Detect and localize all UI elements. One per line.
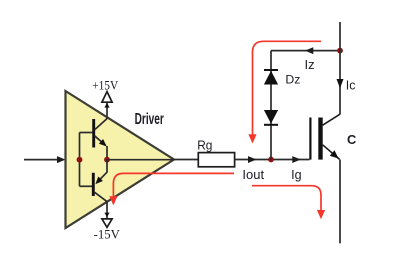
transistor Q1 collector (95, 119, 107, 130)
transistor Q2 emitter wire (97, 160, 107, 183)
svg-text:-15V: -15V (94, 226, 121, 241)
arrowhead Iz (305, 47, 314, 54)
wire base of Q2 (80, 185, 93, 187)
svg-text:C: C (347, 132, 356, 147)
wire base of Q1 (80, 132, 93, 134)
svg-text:+15V: +15V (92, 77, 119, 92)
red arrow Iout loop (109, 196, 117, 205)
wire top from rail to zeners (271, 50, 340, 52)
terminal arrow +15V (102, 92, 112, 103)
svg-text:Iz: Iz (305, 57, 315, 72)
svg-text:Dz: Dz (285, 72, 300, 86)
wire emitter node to output tip (107, 159, 174, 161)
node emitter junction dot (104, 157, 110, 163)
arrowhead Iout (248, 156, 257, 163)
transistor Q1 emitter arrow (99, 139, 107, 146)
input arrowhead into driver (57, 156, 66, 163)
transistor Q1 emitter (95, 136, 106, 146)
transistor Q2 PNP base bar (92, 173, 95, 196)
resistor Rg (198, 153, 234, 167)
red current path Iout loop (113, 173, 234, 197)
supply stub +15V (106, 102, 108, 119)
svg-text:Iout: Iout (242, 167, 264, 182)
wire Q1 emitter to node (106, 146, 108, 160)
node base junction dot (77, 157, 83, 163)
diode Dz2 triangle (264, 110, 278, 124)
wire tip to Rg (174, 159, 198, 161)
supply stub -15V (106, 201, 108, 219)
transistor IGBT gate bar (309, 118, 311, 160)
red current path Ig loop (252, 186, 321, 211)
transistor IGBT emitter arrow (330, 150, 339, 158)
wire zener chain vertical (270, 51, 272, 160)
diode Dz1 cathode bar (264, 69, 278, 71)
wire collector rail (339, 22, 341, 114)
red current path Iz loop (253, 41, 322, 135)
small arrow on -15V stub (104, 213, 109, 218)
red arrow Iz loop (248, 134, 256, 143)
node gate junction dot (268, 157, 274, 163)
op-amp driver triangle body (66, 91, 175, 228)
arrowhead Ig (292, 156, 301, 163)
svg-text:Rg: Rg (197, 139, 212, 153)
transistor IGBT collector (323, 114, 340, 125)
diode Dz1 triangle (264, 71, 278, 85)
transistor IGBT body bar (318, 118, 322, 160)
transistor Q2 collector (95, 192, 107, 201)
wire Rg to gate (235, 159, 310, 161)
svg-text:Ig: Ig (291, 168, 301, 182)
small arrow on +15V stub (104, 103, 109, 108)
transistor Q2 emitter arrow (95, 177, 103, 185)
terminal arrow -15V (102, 219, 112, 227)
diode Dz2 cathode bar (264, 124, 278, 126)
wire base bus vertical (79, 133, 81, 187)
node rail junction dot (337, 48, 343, 54)
transistor Q1 NPN base bar (92, 119, 95, 148)
svg-text:Driver: Driver (135, 111, 164, 128)
small arrow Ic on rail (337, 79, 344, 88)
wire input from left (24, 159, 58, 161)
svg-text:Ic: Ic (346, 78, 356, 92)
red arrow Ig loop (317, 210, 325, 219)
wire emitter rail (339, 160, 341, 244)
transistor IGBT emitter (323, 145, 340, 160)
